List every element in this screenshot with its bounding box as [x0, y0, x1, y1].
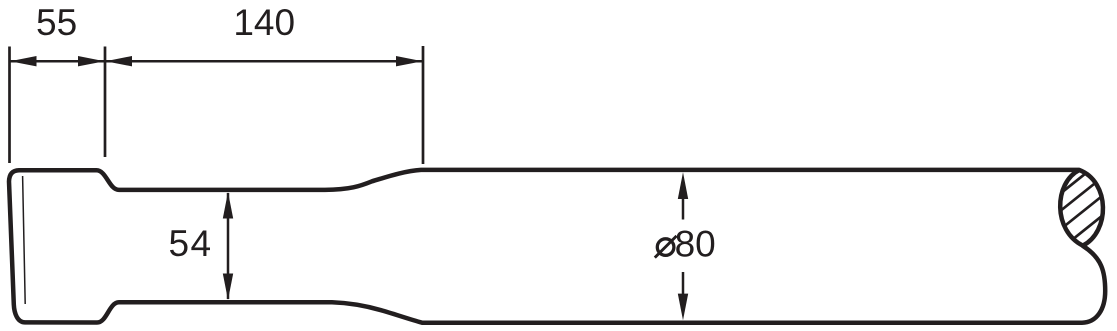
break lens outline: [1060, 170, 1103, 246]
hatch lines: [1050, 150, 1115, 258]
arrow 140 right: [396, 56, 423, 66]
arrow 80 up: [678, 172, 688, 199]
extension line middle: [104, 47, 107, 158]
svg-text:55: 55: [36, 2, 77, 43]
dimension line 140: [105, 60, 423, 63]
svg-text:80: 80: [675, 223, 716, 264]
break lens fill: [1060, 170, 1103, 246]
svg-text:140: 140: [233, 2, 295, 43]
label diameter symbol: [657, 239, 674, 256]
arrow 55 left: [10, 56, 37, 66]
dimension line 54: [227, 193, 230, 299]
dimension line 80 lower: [682, 272, 685, 296]
extension line right: [422, 46, 425, 164]
dimension line 80 upper: [682, 199, 685, 220]
chamfer inner line: [23, 176, 26, 304]
extension line left: [8, 47, 11, 164]
tool body outline: [9, 170, 1105, 323]
dimension line 55: [10, 60, 106, 63]
arrow 80 down: [678, 294, 688, 321]
svg-text:54: 54: [169, 223, 213, 264]
arrow 55 right: [78, 56, 105, 66]
arrow 54 up: [223, 192, 233, 219]
arrow 54 down: [223, 274, 233, 301]
arrow 140 left: [106, 56, 133, 66]
